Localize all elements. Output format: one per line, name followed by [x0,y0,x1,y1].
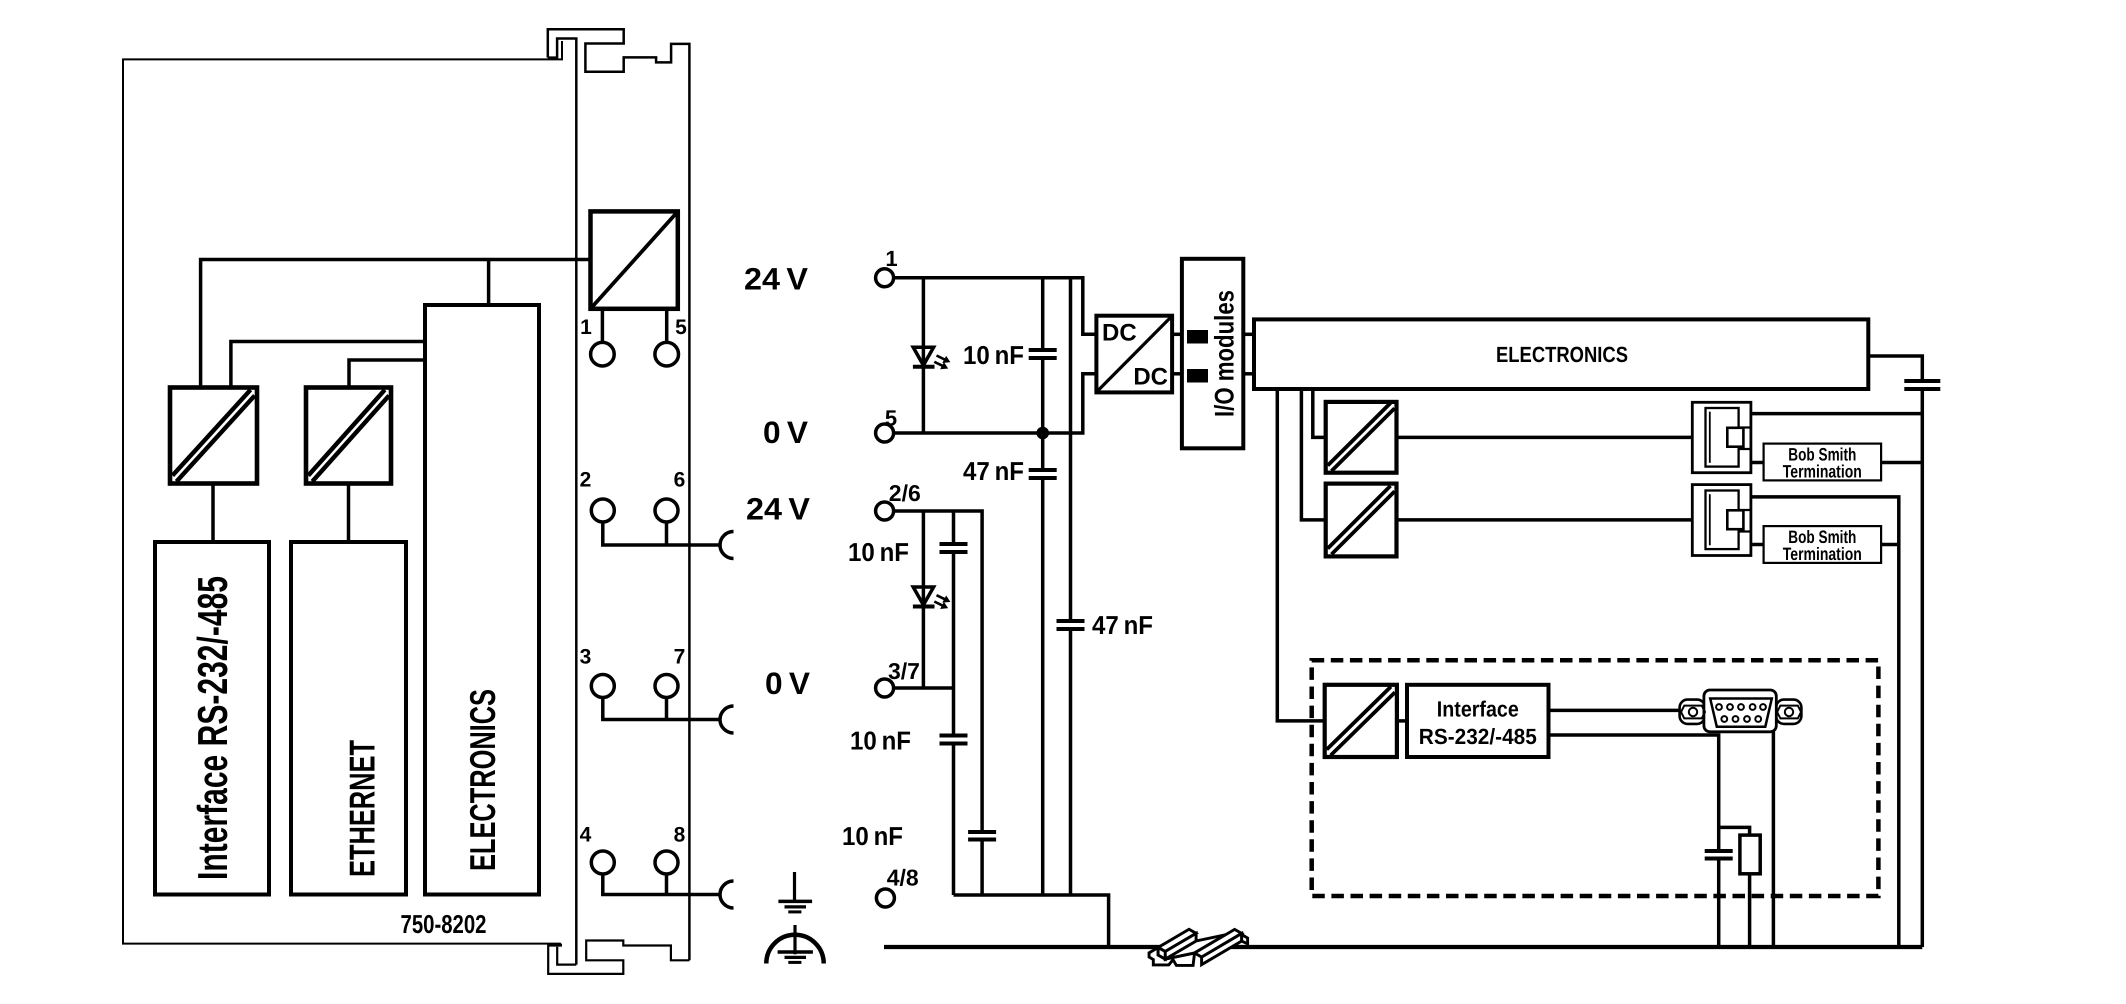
svg-text:I/O modules: I/O modules [1210,290,1240,417]
RJ45 jack 1 [1692,402,1751,472]
terminal pair 3/7 with jumper wire and clamp contact [591,675,733,734]
box ELECTRONICS (right) [1254,319,1868,389]
bus contact pin upper [1187,330,1208,344]
DB9 connector J1 [1680,690,1802,732]
wire branch to ELECTRONICS top [487,260,491,306]
labels left module [580,316,688,847]
svg-text:Termination: Termination [1783,544,1862,564]
resistor R1 [1740,835,1760,874]
capacitor C3 47nF plates [1057,621,1085,629]
svg-text:2: 2 [580,469,592,492]
capacitor C2 47nF plates [1029,470,1057,478]
wire port1 transformer to RJ45 jack 1 [1397,436,1693,440]
box Interface RS-232/-485 (left) [155,542,269,895]
transformer T2 (Ethernet isolation) [306,388,391,484]
power tap transformer on bus [591,211,678,308]
svg-text:10 nF: 10 nF [848,537,909,567]
bottom collector bar to earth rail [954,895,1109,947]
svg-text:DC: DC [1133,364,1168,391]
wire ETHERNET transformer to ELECTRONICS [349,360,425,389]
svg-text:8: 8 [674,824,686,847]
dashed serial interface enclosure [1312,660,1879,896]
box Bob Smith Termination 1 [1764,444,1882,481]
svg-text:ELECTRONICS: ELECTRONICS [1496,342,1628,367]
capacitor chain 10nF/47nF (x=1042.7) wires [1041,278,1045,895]
module 750-8202 enclosure outline [123,41,562,944]
wire port2 transformer to RJ45 jack 2 [1397,518,1693,522]
bus column top latch bar [548,29,690,960]
svg-text:24 V: 24 V [746,492,810,527]
wire 2/6 branch [894,511,983,895]
bus contact pin lower [1187,369,1208,383]
svg-text:5: 5 [885,406,897,431]
wire RJ45 jack1 shield to vertical [1751,412,1922,416]
wire Bob Smith 1 to earth vertical [1881,461,1922,465]
capacitor C5 10nF plates [940,736,968,744]
capacitor chain 10nF (x=953.5) wires [952,511,956,895]
terminal circle 1 (bus) [591,342,615,366]
wire ELECTRONICS drop to port1 transformer [1313,389,1326,437]
svg-text:Interface RS-232/-485: Interface RS-232/-485 [189,576,236,880]
wire 3/7 branch [894,686,954,690]
svg-text:4: 4 [580,824,592,847]
svg-text:3/7: 3/7 [888,658,920,684]
DB9 pins row 1 [1716,704,1766,710]
wire RS-232 transformer to ELECTRONICS [231,342,425,390]
LED D2 [913,587,935,607]
box Bob Smith Termination 2 [1764,526,1882,563]
box ETHERNET [291,542,406,895]
svg-text:0 V: 0 V [763,415,808,450]
svg-text:Interface: Interface [1437,697,1519,722]
svg-text:5: 5 [675,316,687,339]
functional earth symbol [778,872,812,912]
svg-text:10 nF: 10 nF [850,726,911,756]
terminal 5 circle (field) [876,424,894,442]
capacitor chain 47nF (x=1070.5) wires [1069,278,1073,895]
DB9 pins row 2 [1721,716,1761,722]
svg-text:0 V: 0 V [765,666,810,701]
svg-text:47 nF: 47 nF [1092,610,1153,640]
module bottom latch foot outline [548,941,689,974]
LED D2 emission arrows [934,595,949,608]
wire DC/DC to I/O modules lower [1172,372,1182,376]
wire shield capacitor down to earth rail [1921,389,1925,947]
wire I/O modules to ELECTRONICS upper [1243,333,1254,337]
transformer T4 (port2) [1326,484,1397,557]
svg-text:4/8: 4/8 [887,865,919,891]
wire Interface lower to RC branch [1549,735,1719,947]
svg-text:10 nF: 10 nF [963,340,1024,370]
wire ELECTRONICS drop to port2 transformer [1301,389,1325,520]
svg-text:47 nF: 47 nF [963,456,1024,486]
terminal 1 circle (field) [876,269,894,287]
LED D2 branch wire [922,511,926,688]
wire 0V rail to DC/DC [894,374,1097,433]
wire I/O modules to ELECTRONICS lower [1243,372,1254,376]
wire RJ45 jack2 shield down to earth rail [1751,497,1899,947]
capacitor C7 shield plates [1904,381,1940,389]
DC/DC converter U1 [1096,316,1172,393]
pin stub 5 [665,309,669,343]
wire 24V rail to DC/DC [894,278,1097,335]
box Interface RS-232/-485 (serial) [1407,685,1549,757]
svg-text:ELECTRONICS: ELECTRONICS [462,689,503,871]
terminal pair 4/8 with jumper wire and clamp contact [591,851,733,908]
protective earth (dome) symbol [766,925,823,964]
terminal 3/7 circle (field) [876,679,894,697]
pin stub 1 [601,309,605,343]
capacitor C4 10nF plates [940,544,968,552]
capacitor C8 plates [1705,851,1733,859]
terminal pair 2/6 with jumper wire and clamp contact [591,499,733,559]
junction dot 0V node [1036,427,1049,440]
LED D1 emission arrows [934,356,949,369]
earth rail [884,945,1922,949]
wire Bob Smith 2 to vertical [1881,543,1899,547]
wire transformer T1 to Interface box [211,483,215,542]
DIN rail symbol [1149,929,1248,965]
box I/O modules [1182,259,1243,449]
transformer T3 (port1) [1326,402,1397,473]
svg-text:3: 3 [580,646,592,669]
module bottom latch inner notch [557,947,576,965]
wire ELECTRONICS to shield capacitor [1868,356,1922,381]
box ELECTRONICS (left tall) [425,305,539,895]
RJ45 jack 2 [1692,485,1751,556]
terminal 2/6 circle (field) [876,502,894,520]
wire serial transformer to Interface box [1397,719,1407,723]
svg-text:750-8202: 750-8202 [401,909,487,939]
bus column left rail with top latch notch [548,39,577,965]
LED D1 [913,347,935,367]
capacitor C6 10nF plates [968,832,996,840]
wire RJ45 jack2 to Bob Smith 2 [1751,543,1764,547]
svg-text:6: 6 [674,469,686,492]
svg-text:DC: DC [1102,320,1137,347]
wire 24V bus from power tap to RS-232 transformer and electronics [201,260,591,390]
svg-text:24 V: 24 V [744,262,808,297]
capacitor C1 10nF plates [1029,350,1057,358]
terminal circle 5 (bus) [655,342,679,366]
wire branch to resistor R1 [1719,827,1750,947]
transformer T5 (serial isolation) [1325,685,1397,757]
svg-text:1: 1 [885,246,897,271]
wire DB9 pin down to earth rail [1772,727,1776,947]
LED D1 branch wire [922,278,926,433]
terminal 4/8 circle (field) [876,889,894,907]
svg-text:10 nF: 10 nF [842,821,903,851]
wire RJ45 jack1 to Bob Smith 1 [1751,461,1764,465]
svg-text:RS-232/-485: RS-232/-485 [1419,724,1537,749]
wire Interface to DB9 [1549,709,1681,713]
svg-text:7: 7 [674,646,686,669]
wire ELECTRONICS drop to serial transformer [1277,389,1324,721]
svg-text:1: 1 [580,316,592,339]
wire transformer T2 to ETHERNET box [347,483,351,542]
svg-text:Termination: Termination [1783,462,1862,482]
transformer T1 (RS-232 isolation) [170,388,257,484]
svg-text:2/6: 2/6 [889,480,921,506]
svg-text:ETHERNET: ETHERNET [342,740,383,877]
wire DC/DC to I/O modules upper [1172,333,1182,337]
